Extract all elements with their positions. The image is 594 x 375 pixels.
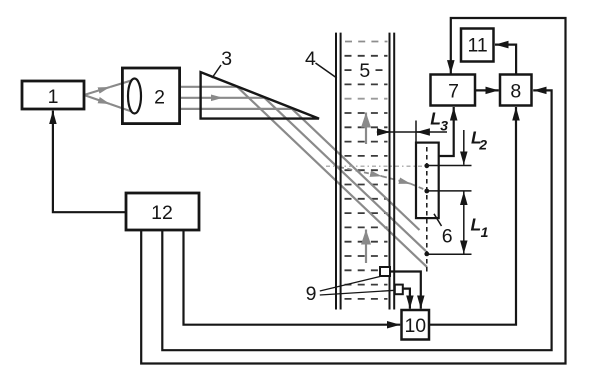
wire box6 to box7 bottom xyxy=(439,107,454,156)
wire collimated ray bottom xyxy=(180,108,293,110)
dimension L2 arrow xyxy=(463,130,465,165)
wire divergent ray lower box1 to lens xyxy=(84,95,110,104)
wire box12 to box1 xyxy=(53,111,126,213)
wire laser beams gray xyxy=(84,80,427,268)
svg-text:2: 2 xyxy=(478,136,487,152)
extension line dot3 xyxy=(427,253,472,255)
wire sensor2 to box10 xyxy=(403,289,410,309)
dimension L3 line xyxy=(377,131,447,133)
black wires xyxy=(53,18,566,364)
dimension lines xyxy=(212,63,472,295)
dimension L1 arrow xyxy=(463,192,465,223)
sensor square 9b xyxy=(395,285,403,295)
wire collimated ray middle xyxy=(180,97,223,99)
wire box12 to box7 top xyxy=(141,18,565,364)
svg-text:4: 4 xyxy=(305,48,316,70)
wire box12 to box10 xyxy=(184,230,401,325)
extension line dot1 xyxy=(427,165,472,167)
wire box10 to box8 bottom xyxy=(429,107,516,325)
pointer label 6 xyxy=(434,214,442,226)
wire box8 to box11 xyxy=(495,45,516,75)
wire collimated ray top xyxy=(180,86,238,88)
channel 4 walls xyxy=(336,33,394,310)
svg-text:12: 12 xyxy=(151,202,173,224)
flow arrow lower xyxy=(365,230,367,264)
prism 3 xyxy=(201,72,319,119)
wire divergent ray upper box1 to lens xyxy=(84,87,110,95)
channel 5 dashed liquid rows xyxy=(345,42,388,299)
extension line above box6 xyxy=(415,121,417,143)
box 8 xyxy=(500,75,532,106)
lens xyxy=(128,79,141,114)
svg-text:7: 7 xyxy=(448,81,459,103)
svg-text:9: 9 xyxy=(306,283,317,305)
pointer label 3 xyxy=(212,65,221,78)
svg-text:L: L xyxy=(471,215,482,235)
svg-text:1: 1 xyxy=(481,224,489,240)
node dot1 xyxy=(424,163,429,168)
flow arrow upper xyxy=(365,113,367,145)
pointer label 9 lower xyxy=(320,290,395,295)
pointer label 9 upper xyxy=(320,277,380,292)
svg-text:11: 11 xyxy=(467,35,487,57)
svg-text:3: 3 xyxy=(440,118,448,134)
box 11 xyxy=(461,29,494,62)
node axis dashed line box6 xyxy=(426,147,428,273)
svg-text:5: 5 xyxy=(359,60,370,82)
svg-text:8: 8 xyxy=(510,81,521,103)
svg-text:1: 1 xyxy=(48,86,59,108)
wire box12 to box8 right xyxy=(162,90,551,350)
reference dash-dot line xyxy=(326,165,427,167)
node dot3 xyxy=(424,252,429,257)
scattered light dashed gray ray xyxy=(339,167,427,191)
wire refracted ray 1 xyxy=(237,87,427,267)
svg-text:L: L xyxy=(430,109,441,129)
extension line dot2 xyxy=(427,190,472,192)
wire refracted ray 2 xyxy=(265,98,427,251)
box 12 xyxy=(126,193,199,230)
node dot2 xyxy=(424,189,429,194)
wire refracted ray 3 xyxy=(292,109,419,230)
svg-text:6: 6 xyxy=(442,225,453,247)
box 10 xyxy=(402,310,430,340)
box 6 photodetector xyxy=(416,143,439,219)
svg-text:3: 3 xyxy=(221,48,232,70)
svg-text:2: 2 xyxy=(154,87,165,109)
box 2 collimator xyxy=(122,68,179,124)
wire box7 to box8 xyxy=(475,89,499,91)
sensor square 9a xyxy=(380,267,390,276)
pointer label 4 xyxy=(316,63,337,78)
wire sensor1 to box10 xyxy=(390,272,421,309)
box 7 xyxy=(431,75,476,106)
box 1 laser xyxy=(22,81,84,109)
svg-text:10: 10 xyxy=(404,315,426,337)
